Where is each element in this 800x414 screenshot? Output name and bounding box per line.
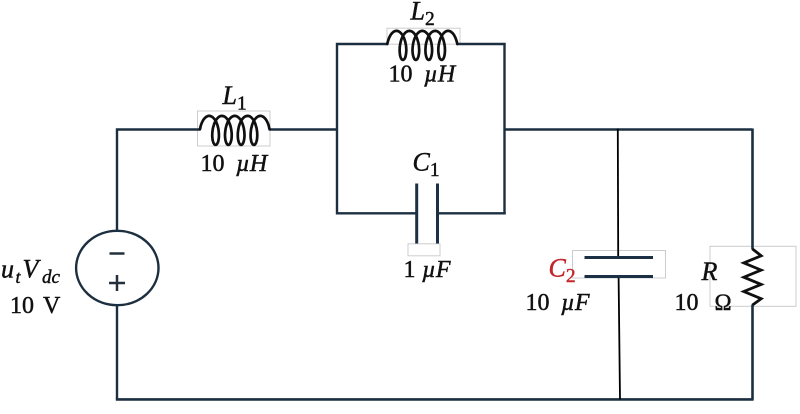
minus sign: [110, 252, 125, 255]
wire right vertical top (rail to R): [751, 129, 754, 250]
voltage source V1 circle: [76, 231, 158, 305]
inductor L2 highlight box: [387, 28, 460, 44]
resistor R zigzag: [744, 249, 761, 305]
svg-text:10µH: 10µH: [201, 151, 269, 177]
capacitor C1 right plate: [436, 184, 439, 244]
node A: loop left vertical: [337, 44, 387, 215]
capacitor C1 left plate: [415, 184, 418, 244]
plus sign: [109, 275, 125, 291]
capacitor C2 bottom plate: [585, 275, 654, 278]
wire L1 to loop left node: [270, 128, 339, 130]
wire left vertical top (source to top rail): [117, 130, 200, 232]
wire loop bottom left (to C1): [337, 212, 416, 214]
wire right vertical bottom (R to bottom rail): [751, 305, 754, 400]
capacitor C1 highlight box: [408, 244, 440, 256]
inductor L1 coil: [200, 116, 270, 145]
wire left vertical bottom (source to bottom rail): [116, 305, 118, 399]
wire bottom rail: [116, 398, 754, 401]
resistor R highlight box: [710, 246, 796, 306]
wire C2 branch bottom: [619, 277, 620, 399]
wire loop bottom right (C1 to node B): [438, 212, 506, 214]
inductor L1 highlight box: [198, 111, 271, 146]
svg-text:R: R: [701, 257, 718, 286]
wire C2 branch top: [617, 129, 619, 258]
svg-text:L1: L1: [222, 81, 247, 115]
wire top rail right (node B to right corner): [505, 128, 753, 130]
svg-text:10µH: 10µH: [389, 62, 457, 88]
capacitor C2 highlight box: [573, 251, 666, 279]
svg-text:L2: L2: [410, 0, 435, 30]
svg-text:10µF: 10µF: [526, 290, 590, 316]
node B: loop right vertical: [503, 44, 505, 215]
wire loop top right: [457, 43, 505, 45]
svg-text:1µF: 1µF: [404, 257, 451, 283]
svg-text:10V: 10V: [10, 293, 61, 319]
svg-text:10Ω: 10Ω: [675, 290, 732, 316]
inductor L2 coil: [387, 31, 457, 60]
capacitor C2 top plate: [585, 256, 654, 259]
svg-text:C2: C2: [549, 254, 576, 288]
svg-text:C1: C1: [413, 148, 440, 182]
svg-text:utVdc: utVdc: [1, 255, 61, 289]
